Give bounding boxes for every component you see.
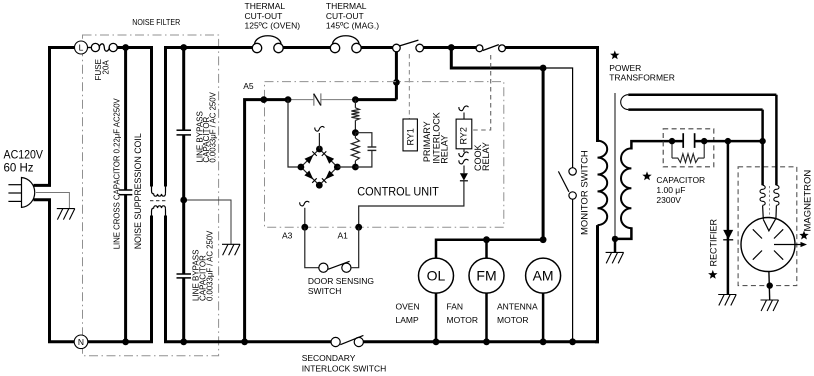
wire motor bus xyxy=(436,240,543,259)
wire branch dot to RY2 contact xyxy=(451,46,476,49)
junction top bus / C2 xyxy=(180,44,187,51)
wire left bus upper segment xyxy=(50,48,76,186)
svg-text:NOISE SUPPRESSION COIL: NOISE SUPPRESSION COIL xyxy=(133,133,143,249)
AC plug P1 xyxy=(8,178,34,208)
capacitor C2 plates xyxy=(177,130,192,135)
capacitor C3 lower lead xyxy=(182,278,185,342)
junction bridge right xyxy=(334,164,341,171)
svg-text:A3: A3 xyxy=(282,230,293,240)
wire AM to bottom bus xyxy=(542,293,545,342)
star (rectifier) xyxy=(708,270,717,279)
wire top bus: choke to thermal cutout 1 xyxy=(164,46,252,49)
wire bypass junction to chassis ground xyxy=(184,200,231,244)
svg-text:MOTOR: MOTOR xyxy=(447,315,478,325)
wire thin segment left of jumper xyxy=(288,99,314,101)
noise filter enclosure box xyxy=(83,35,219,356)
secondary interlock switch S3 xyxy=(331,335,363,346)
svg-text:DOOR SENSING: DOOR SENSING xyxy=(308,276,374,286)
wire A3 pin xyxy=(304,208,306,227)
magnetron antenna arrow xyxy=(774,244,803,246)
wire between thermal cutouts xyxy=(283,46,330,49)
wire RY1 circle down to control unit xyxy=(395,52,398,100)
filament choke cores xyxy=(769,186,771,218)
resistor R2 xyxy=(351,138,359,161)
wire plug to left bus (bottom contact) xyxy=(34,198,52,201)
wire TC2 to RY1 contact xyxy=(361,46,392,49)
wire filament lead right xyxy=(775,95,778,186)
transformer T1 primary winding xyxy=(598,141,608,225)
junction filament / HV line xyxy=(759,138,765,144)
junction control wire / resistor xyxy=(352,96,359,103)
relay coil RY1 xyxy=(403,119,417,151)
junction R2 bottom xyxy=(352,164,359,171)
fuse F1 20A xyxy=(91,43,117,51)
svg-text:2300V: 2300V xyxy=(656,195,681,205)
wire RY1 contact to branch dot xyxy=(424,46,454,49)
inductor L2 (filament choke left) xyxy=(760,185,765,205)
svg-text:CAPACITOR: CAPACITOR xyxy=(656,175,705,185)
wire monitor switch to bottom bus xyxy=(572,199,574,342)
svg-text:CUT-OUT: CUT-OUT xyxy=(245,11,283,21)
svg-text:MONITOR SWITCH: MONITOR SWITCH xyxy=(580,150,591,235)
ground (transformer) xyxy=(606,252,624,263)
svg-text:145ºC (MAG.): 145ºC (MAG.) xyxy=(326,21,379,31)
bridge rectifier D1-D4 xyxy=(301,149,337,185)
capacitor C4 branch xyxy=(355,133,372,147)
svg-text:0.0033μF / AC 250V: 0.0033μF / AC 250V xyxy=(208,91,217,162)
relay coil RY1 linkage xyxy=(408,54,410,119)
junction anode / box xyxy=(767,282,773,288)
junction motor bus / feed xyxy=(540,236,547,243)
svg-text:CUT-OUT: CUT-OUT xyxy=(326,11,364,21)
svg-text:TRANSFORMER: TRANSFORMER xyxy=(609,73,675,83)
svg-text:0.0033μF / AC 250V: 0.0033μF / AC 250V xyxy=(205,230,214,301)
svg-text:RECTIFIER: RECTIFIER xyxy=(709,218,719,266)
wire control unit feed (A5) xyxy=(245,100,289,342)
control unit enclosure box xyxy=(265,82,504,228)
wire thin segment right of jumper xyxy=(321,99,356,101)
relay contact RY2 (cook relay) xyxy=(476,45,505,52)
magnetron enclosure box xyxy=(738,167,797,286)
diode D1 (bridge TL) xyxy=(305,155,314,164)
diode D2 (bridge TR) xyxy=(325,155,334,164)
svg-text:LAMP: LAMP xyxy=(396,315,419,325)
star (power transformer) xyxy=(610,50,619,59)
capacitor C2 line bypass upper lead xyxy=(182,48,185,131)
wire L to fuse xyxy=(88,47,93,49)
transformer T1 HV secondary winding xyxy=(621,148,631,228)
antenna motor AM xyxy=(526,258,561,293)
junction top bus / C1 xyxy=(122,44,129,51)
svg-text:OL: OL xyxy=(427,268,446,284)
choke core xyxy=(150,200,167,202)
wire bridge top lead xyxy=(318,133,320,149)
svg-text:FM: FM xyxy=(476,268,496,284)
svg-text:RY1: RY1 xyxy=(405,128,415,145)
wire A3 to door sensing switch xyxy=(305,227,319,268)
wire to monitor switch xyxy=(543,68,573,168)
wire RY2 to pins xyxy=(463,149,465,152)
svg-text:THERMAL: THERMAL xyxy=(326,1,367,11)
wire diode to A1 xyxy=(359,181,464,227)
magnetron V1 body xyxy=(741,218,795,272)
terminal N xyxy=(74,335,88,349)
capacitor C3 line bypass lower plates xyxy=(177,274,192,278)
svg-text:1.00 μF: 1.00 μF xyxy=(656,185,685,195)
junction bottom bus / FM xyxy=(483,338,490,345)
junction motor bus / FM xyxy=(483,236,490,243)
junction C5 left xyxy=(669,138,675,144)
svg-text:THERMAL: THERMAL xyxy=(245,1,286,11)
svg-text:MOTOR: MOTOR xyxy=(497,315,528,325)
diode D3 (bridge BL) xyxy=(304,171,313,180)
terminal A1 xyxy=(355,224,362,231)
capacitor C1 plates xyxy=(119,190,132,195)
fan motor FM xyxy=(469,258,504,293)
svg-text:PRIMARY: PRIMARY xyxy=(422,121,432,162)
svg-text:POWER: POWER xyxy=(609,63,641,73)
transformer T1 core xyxy=(614,93,616,239)
junction R1/R2 xyxy=(352,129,359,136)
wire HV secondary bottom to core ground xyxy=(615,227,631,252)
svg-text:MAGNETRON: MAGNETRON xyxy=(803,170,814,232)
wire left bus lower segment xyxy=(50,200,76,342)
junction C5 right xyxy=(701,138,707,144)
thermal cut-out 145C (mag.) xyxy=(330,36,361,53)
wire fuse to top bus xyxy=(117,46,127,49)
svg-text:20A: 20A xyxy=(102,60,111,75)
wire FM to bottom bus xyxy=(485,293,488,342)
svg-text:A5: A5 xyxy=(243,81,254,91)
thermal cut-out 125C (oven) xyxy=(252,36,283,53)
monitor switch S4 xyxy=(558,168,576,200)
svg-text:A1: A1 xyxy=(338,230,349,240)
svg-text:INTERLOCK SWITCH: INTERLOCK SWITCH xyxy=(302,363,387,373)
svg-text:LINE CROSS CAPACITOR 0.22μF A: LINE CROSS CAPACITOR 0.22μF AC250V xyxy=(113,98,122,250)
diode D6 rectifier xyxy=(723,230,733,240)
inductor L1 noise suppression coil upper winding xyxy=(150,48,153,187)
svg-text:60 Hz: 60 Hz xyxy=(4,163,34,175)
junction bottom bus / OL xyxy=(433,338,440,345)
door sensing switch S2 xyxy=(319,261,351,272)
star (magnetron) xyxy=(799,231,808,240)
capacitor C1 line cross 0.22uF (upper lead) xyxy=(124,48,127,191)
relay coil RY2 linkage xyxy=(472,55,491,130)
relay contact RY1 (primary interlock) xyxy=(393,40,424,52)
wire bridge right to resistor node xyxy=(337,166,355,168)
diode D4 (bridge BR) xyxy=(325,171,334,180)
resistor R1 lower lead xyxy=(354,120,356,132)
svg-text:RELAY: RELAY xyxy=(440,135,450,164)
junction bridge left xyxy=(298,164,305,171)
connector pin (RY2 top) xyxy=(459,106,469,111)
inductor L3 (filament choke right) xyxy=(774,185,779,205)
junction bridge bottom xyxy=(316,182,323,189)
junction top bus branch xyxy=(448,44,455,51)
svg-text:SECONDARY: SECONDARY xyxy=(302,353,356,363)
junction bridge top xyxy=(316,146,323,153)
wire hook to RY2 xyxy=(463,113,465,120)
ground (magnetron) xyxy=(761,300,779,311)
wire C2 to junction xyxy=(182,135,185,274)
wire door sensing switch to A1 xyxy=(351,227,359,268)
junction A5 terminal xyxy=(260,96,267,103)
svg-text:AM: AM xyxy=(533,268,554,284)
junction bottom bus / C3 xyxy=(180,338,187,345)
svg-text:L: L xyxy=(79,43,84,53)
svg-text:RY2: RY2 xyxy=(459,127,469,144)
wire OL to bottom bus xyxy=(435,293,438,342)
junction motor feed xyxy=(540,65,547,72)
transformer T1 filament winding (hairpin to magnetron) xyxy=(628,93,776,96)
wire bottom bus middle xyxy=(164,340,331,343)
svg-text:N: N xyxy=(78,337,84,347)
magnetron cathode xyxy=(763,219,775,231)
magnetron vanes xyxy=(753,229,783,259)
junction bypass capacitors / ground xyxy=(180,197,187,204)
svg-text:FAN: FAN xyxy=(447,302,464,312)
svg-text:OVEN: OVEN xyxy=(396,302,420,312)
wire thick segment to RY1 drop xyxy=(355,98,396,101)
wire to bridge left vertex xyxy=(288,100,301,167)
resistor R1 xyxy=(351,108,359,121)
wire magnetron anode to ground xyxy=(768,272,771,301)
svg-text:125ºC (OVEN): 125ºC (OVEN) xyxy=(245,21,301,31)
diode D5 (cook relay output) xyxy=(460,173,468,180)
link/jumper symbol on control wire xyxy=(314,93,321,105)
svg-text:AC120V: AC120V xyxy=(4,150,44,162)
wire chokes to magnetron cathode xyxy=(763,206,777,220)
junction bottom bus / C1 xyxy=(122,338,129,345)
junction control unit boundary xyxy=(393,79,400,86)
connector pin (A3) xyxy=(300,201,310,206)
wire FM drop xyxy=(485,240,488,259)
HV capacitor enclosure box xyxy=(663,129,714,167)
wire bottom bus right xyxy=(363,340,599,343)
svg-text:CONTROL UNIT: CONTROL UNIT xyxy=(357,186,439,198)
junction bottom bus / AM xyxy=(540,338,547,345)
star (capacitor) xyxy=(642,171,651,180)
wire plug to left bus (top contact) xyxy=(34,184,52,187)
wire pins to diode xyxy=(463,166,465,174)
svg-text:RELAY: RELAY xyxy=(481,142,491,171)
junction control wire / bridge xyxy=(285,96,292,103)
ground (rectifier) xyxy=(718,295,736,306)
wire C5 to diode junction xyxy=(695,140,764,143)
terminal L xyxy=(75,41,88,54)
bleeder resistor R3 xyxy=(672,141,704,158)
wire rectifier branch xyxy=(727,141,730,294)
capacitor C1 lower lead xyxy=(124,195,127,342)
wire branch to motor feed xyxy=(451,48,544,69)
svg-text:NOISE FILTER: NOISE FILTER xyxy=(132,17,180,27)
wire bottom bus N-side xyxy=(88,340,153,343)
wire top bus: cross-cap dot to choke xyxy=(126,46,153,49)
ground (plug) xyxy=(57,209,75,220)
wire filament lead left xyxy=(761,110,764,186)
svg-text:SWITCH: SWITCH xyxy=(308,286,342,296)
inductor L1 lower winding xyxy=(152,206,166,217)
junction bottom bus / control unit feed xyxy=(241,338,248,345)
connector pins (RY2 bottom) xyxy=(459,152,469,157)
wire motor feed down xyxy=(542,68,545,241)
wire primary bottom to bottom bus xyxy=(595,225,598,342)
resistor R2 upper lead xyxy=(354,133,356,138)
junction core / HV winding xyxy=(612,236,618,242)
junction rectifier / HV line xyxy=(725,138,731,144)
svg-text:ANTENNA: ANTENNA xyxy=(497,302,538,312)
resistor R2 lower lead xyxy=(354,161,356,167)
oven lamp OL xyxy=(419,258,454,293)
ground (noise filter) xyxy=(222,244,240,255)
wire RY2 contact to transformer xyxy=(505,48,597,142)
wire plug earth lead xyxy=(36,193,70,209)
connector pin (bridge top) xyxy=(315,126,325,131)
capacitor C5 HV 1.00uF plates xyxy=(683,133,694,148)
junction bottom bus / monitor switch xyxy=(569,338,576,345)
terminal A3 xyxy=(301,224,308,231)
wire HV secondary top to capacitor xyxy=(631,141,683,149)
resistor R1 upper lead xyxy=(354,100,356,108)
relay coil RY2 xyxy=(456,119,472,149)
